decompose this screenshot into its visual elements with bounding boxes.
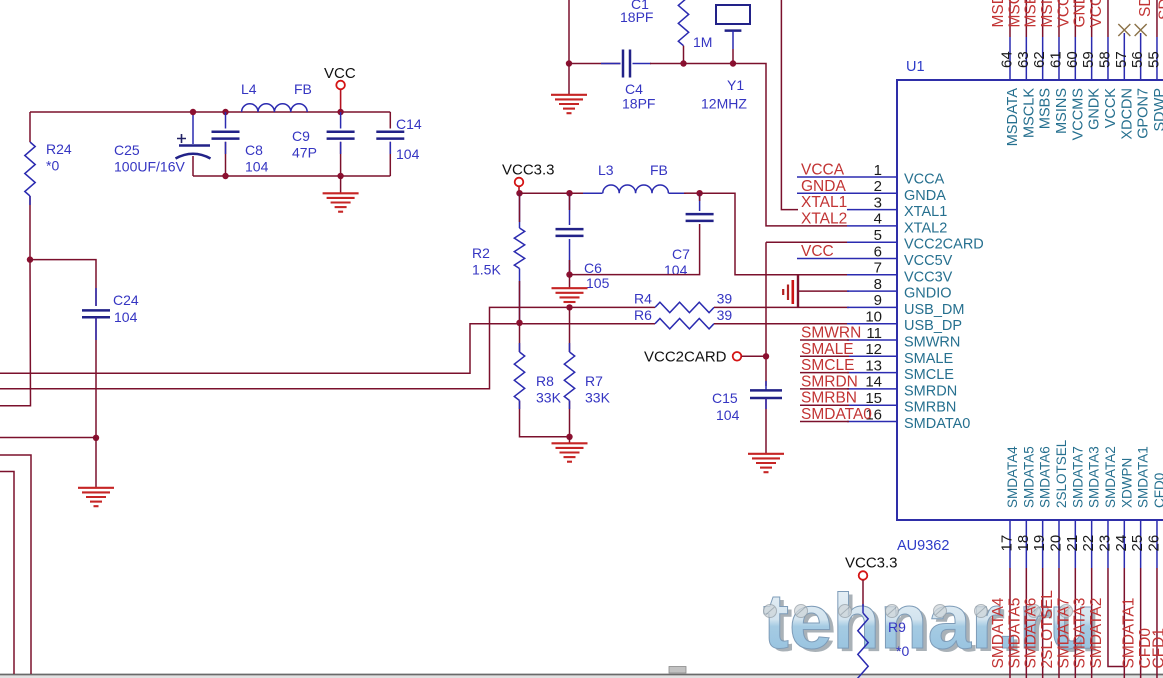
- ground under C15: [748, 453, 784, 455]
- wire VCC5V rail top-left: [30, 111, 390, 113]
- wire gnd stem filter: [340, 176, 342, 193]
- svg-text:U1: U1: [906, 59, 925, 75]
- svg-text:C15: C15: [712, 390, 738, 406]
- node 1M bottom: [680, 60, 686, 66]
- svg-text:104: 104: [664, 262, 688, 278]
- svg-text:22: 22: [1080, 535, 1097, 552]
- bottom pin numbers 17-26: [999, 535, 1163, 552]
- capacitor C4: [622, 50, 625, 78]
- node R24/C24 junction: [27, 256, 33, 262]
- svg-text:SMRDN: SMRDN: [904, 383, 957, 399]
- resistor R8 top wire: [519, 323, 521, 352]
- svg-text:2: 2: [874, 178, 882, 195]
- node VCC3.3 junction: [516, 190, 522, 196]
- svg-text:R6: R6: [634, 307, 652, 323]
- svg-text:MSDATA: MSDATA: [1005, 88, 1021, 147]
- svg-text:64: 64: [999, 51, 1016, 68]
- wire C4 gnd stem: [568, 64, 570, 95]
- resistor R9 stub: [862, 604, 864, 613]
- svg-text:20: 20: [1047, 535, 1064, 552]
- svg-text:1.5K: 1.5K: [472, 262, 501, 278]
- svg-text:SMALE: SMALE: [904, 351, 953, 367]
- svg-text:SMRDN: SMRDN: [801, 373, 858, 390]
- svg-text:C7: C7: [672, 246, 690, 262]
- resistor R7: [564, 352, 574, 401]
- node C9 bottom: [337, 173, 343, 179]
- svg-text:R2: R2: [472, 245, 490, 261]
- svg-text:*0: *0: [46, 158, 59, 174]
- capacitor C25 plus sign: [177, 134, 186, 143]
- node C6 top: [566, 190, 572, 196]
- svg-text:SMDATA0: SMDATA0: [904, 416, 970, 432]
- node R7/R8 gnd junction: [566, 434, 572, 440]
- svg-text:56: 56: [1129, 51, 1146, 68]
- top pin names: [1005, 88, 1163, 147]
- wire gnd rail bottom of filter: [193, 175, 390, 177]
- svg-text:SMDATA6: SMDATA6: [1038, 446, 1053, 508]
- capacitor C25: [179, 144, 210, 147]
- svg-text:R24: R24: [46, 141, 72, 157]
- svg-text:63: 63: [1015, 51, 1032, 68]
- svg-text:MSINS: MSINS: [1054, 88, 1070, 134]
- svg-text:GNDK: GNDK: [1072, 0, 1089, 28]
- pin numbers 1-16: [865, 162, 882, 424]
- svg-text:12MHZ: 12MHZ: [701, 96, 747, 112]
- wire 1M to crystal: [684, 63, 734, 65]
- wire mid gnd stem: [569, 275, 571, 288]
- svg-text:60: 60: [1064, 51, 1081, 68]
- svg-text:SMDATA5: SMDATA5: [1021, 446, 1036, 508]
- svg-text:5: 5: [874, 227, 882, 244]
- svg-text:VCC3.3: VCC3.3: [845, 555, 898, 572]
- svg-text:VCCMS: VCCMS: [1070, 88, 1086, 140]
- ground GNDIO signal symbol: [783, 275, 798, 308]
- svg-text:GNDA: GNDA: [801, 178, 846, 195]
- svg-text:FB: FB: [650, 162, 668, 178]
- svg-text:SMDATA2: SMDATA2: [1088, 598, 1105, 669]
- node C8 top: [222, 109, 228, 115]
- resistor R4: [655, 302, 714, 312]
- wire 1M bottom: [683, 46, 685, 64]
- svg-text:CFD0: CFD0: [1152, 473, 1163, 508]
- bottom red net labels: [990, 590, 1163, 669]
- svg-text:SMDATA3: SMDATA3: [1087, 446, 1102, 508]
- svg-text:SMDATA2: SMDATA2: [1103, 446, 1118, 508]
- wire bottom-left lower: [0, 472, 14, 675]
- node C4 left junction: [566, 60, 572, 66]
- svg-text:MSINS: MSINS: [1039, 0, 1056, 28]
- svg-text:15: 15: [865, 390, 882, 407]
- svg-text:AU9362: AU9362: [897, 538, 949, 554]
- node crystal bottom: [730, 60, 736, 66]
- wire C7 top: [699, 193, 701, 211]
- wire R2 bottom: [519, 269, 521, 323]
- inductor L4: [242, 104, 308, 112]
- wire C1 vertical: [568, 0, 570, 64]
- wire C8 top stub: [225, 112, 227, 129]
- svg-text:7: 7: [874, 260, 882, 277]
- wire C4 left: [569, 63, 621, 65]
- resistor R8: [514, 352, 524, 401]
- resistor R7 top wire: [569, 307, 571, 352]
- wire C9 bottom stub: [340, 142, 342, 176]
- top pin numbers 64-55: [999, 51, 1163, 68]
- svg-text:23: 23: [1096, 535, 1113, 552]
- node C8 bottom: [222, 173, 228, 179]
- svg-text:4: 4: [874, 211, 882, 228]
- svg-text:VCCK: VCCK: [1103, 88, 1119, 129]
- bottom pin wires: [1010, 521, 1157, 678]
- svg-text:1M: 1M: [693, 34, 712, 50]
- svg-text:SMDATA6: SMDATA6: [1023, 598, 1040, 669]
- svg-text:104: 104: [114, 309, 138, 325]
- wire R24 bottom: [29, 196, 31, 260]
- svg-text:SMCLE: SMCLE: [904, 367, 954, 383]
- sheet border tick: [669, 667, 686, 674]
- node R7 top: [566, 304, 572, 310]
- wire C6 vertical top: [569, 193, 571, 225]
- svg-text:MSBS: MSBS: [1038, 88, 1054, 129]
- svg-text:SMDATA7: SMDATA7: [1070, 446, 1085, 508]
- wire C14 branch: [389, 112, 391, 129]
- wire L3 row right: [669, 192, 687, 194]
- svg-text:100UF/16V: 100UF/16V: [114, 159, 185, 175]
- svg-text:25: 25: [1129, 535, 1146, 552]
- svg-text:11: 11: [866, 325, 882, 342]
- node C25 top: [190, 109, 196, 115]
- svg-text:2SLOTSEL: 2SLOTSEL: [1039, 590, 1056, 669]
- svg-text:CFD1: CFD1: [1151, 628, 1163, 668]
- wire C7 bottom: [570, 224, 700, 275]
- svg-text:33K: 33K: [585, 390, 611, 406]
- svg-text:XTAL2: XTAL2: [904, 220, 947, 236]
- svg-text:17: 17: [999, 535, 1016, 552]
- svg-text:SMRBN: SMRBN: [904, 400, 956, 416]
- svg-text:9: 9: [874, 292, 882, 309]
- svg-text:SMDATA1: SMDATA1: [1136, 446, 1151, 508]
- capacitor C6: [556, 228, 584, 231]
- svg-text:VCC2CARD: VCC2CARD: [644, 349, 727, 366]
- wire C24 ground stem: [95, 438, 97, 488]
- wire C14 bottom: [389, 142, 391, 176]
- svg-text:C24: C24: [113, 292, 139, 308]
- svg-text:SDWP: SDWP: [1152, 88, 1163, 132]
- ground under C9: [323, 192, 359, 194]
- svg-text:3: 3: [874, 194, 882, 211]
- svg-text:*0: *0: [896, 643, 909, 659]
- svg-text:MSCLK: MSCLK: [1006, 0, 1023, 28]
- svg-text:18PF: 18PF: [620, 9, 653, 25]
- svg-text:XTAL1: XTAL1: [801, 194, 847, 211]
- svg-text:13: 13: [865, 357, 882, 374]
- svg-text:GNDIO: GNDIO: [904, 286, 952, 302]
- svg-text:SMDATA3: SMDATA3: [1072, 598, 1089, 669]
- svg-text:GNDK: GNDK: [1087, 88, 1103, 130]
- svg-text:47P: 47P: [292, 145, 317, 161]
- watermark tehnar.ru: [763, 577, 1101, 668]
- svg-text:C8: C8: [245, 142, 263, 158]
- svg-text:VCC: VCC: [801, 243, 834, 260]
- capacitor C25 top wire: [192, 112, 194, 144]
- wire GNDIO to pin8: [798, 290, 849, 292]
- node VCC2CARD junction: [763, 353, 769, 359]
- resistor R9: [858, 613, 868, 678]
- resistor R2 top wire: [519, 193, 521, 228]
- svg-text:SMDATA5: SMDATA5: [1006, 598, 1023, 669]
- wire XTAL1 net: [781, 0, 798, 210]
- svg-text:VCCK: VCCK: [1088, 0, 1105, 28]
- svg-text:VCCA: VCCA: [904, 172, 945, 188]
- capacitor C24: [82, 309, 110, 312]
- top pin wires: [1010, 0, 1157, 79]
- svg-text:18: 18: [1015, 535, 1032, 552]
- svg-text:VCC3.3: VCC3.3: [502, 162, 555, 179]
- crystal Y1: [716, 5, 750, 24]
- top red net labels: [990, 0, 1163, 28]
- svg-text:VCC5V: VCC5V: [904, 253, 953, 269]
- svg-text:104: 104: [245, 159, 269, 175]
- no-connect X pin56: [1135, 24, 1147, 36]
- resistor R1M: [678, 0, 688, 46]
- svg-text:VCC: VCC: [324, 65, 356, 82]
- svg-text:SMWRN: SMWRN: [904, 335, 960, 351]
- no-connect X pin57: [1118, 24, 1130, 36]
- wire pin5 row: [766, 241, 847, 243]
- svg-text:39: 39: [717, 291, 733, 307]
- op-amp U1 chip outline: [897, 80, 1163, 520]
- svg-text:21: 21: [1064, 535, 1081, 552]
- pin names 1-16: [904, 172, 984, 433]
- svg-text:R8: R8: [536, 373, 554, 389]
- svg-text:XDWPN: XDWPN: [1119, 458, 1134, 508]
- svg-text:SMCLE: SMCLE: [801, 357, 854, 374]
- svg-text:SMWRN: SMWRN: [801, 325, 861, 342]
- svg-text:SMRBN: SMRBN: [801, 390, 857, 407]
- wire C15 bottom: [765, 398, 767, 453]
- svg-text:L3: L3: [598, 162, 614, 178]
- node C24 bottom junction: [93, 435, 99, 441]
- svg-text:19: 19: [1031, 535, 1048, 552]
- wire C6 bottom: [569, 239, 571, 275]
- resistor R24: [25, 142, 35, 196]
- node VCC junction: [337, 109, 343, 115]
- svg-text:SDDAT: SDDAT: [1157, 0, 1163, 20]
- svg-text:12: 12: [865, 341, 882, 358]
- node C6/C7 gnd junction: [566, 271, 572, 277]
- svg-text:L4: L4: [241, 81, 257, 97]
- svg-text:24: 24: [1113, 535, 1130, 552]
- wire R4 to chip: [714, 306, 849, 308]
- node R2/R8 junction: [516, 320, 522, 326]
- resistor R6: [655, 319, 714, 329]
- svg-text:14: 14: [865, 374, 882, 391]
- svg-text:39: 39: [717, 307, 733, 323]
- svg-text:C14: C14: [396, 116, 422, 132]
- wire R7 bottom: [569, 401, 571, 437]
- svg-text:SMALE: SMALE: [801, 341, 854, 358]
- svg-text:Y1: Y1: [727, 77, 744, 93]
- svg-text:SDWP: SDWP: [1137, 0, 1154, 17]
- wire C4 right: [633, 63, 652, 65]
- wire to C24: [30, 260, 96, 306]
- svg-text:SMDATA1: SMDATA1: [1121, 598, 1138, 669]
- power VCC2CARD circle: [733, 352, 742, 361]
- wire crystal bottom: [732, 49, 734, 64]
- wire VCC3V to pin7: [700, 193, 847, 275]
- svg-text:MSCLK: MSCLK: [1021, 88, 1037, 138]
- wire gnd stem R7R8: [569, 437, 571, 443]
- svg-text:SMDATA4: SMDATA4: [1005, 446, 1020, 508]
- svg-text:104: 104: [396, 146, 420, 162]
- wire R8 bottom: [520, 401, 570, 437]
- ground middle: [552, 287, 588, 289]
- svg-text:VCCA: VCCA: [801, 162, 845, 179]
- capacitor C8: [212, 131, 240, 134]
- svg-text:C9: C9: [292, 128, 310, 144]
- svg-text:105: 105: [586, 275, 610, 291]
- wire VCC2CARD vertical: [765, 242, 767, 386]
- svg-text:FB: FB: [294, 81, 312, 97]
- svg-text:VCC3V: VCC3V: [904, 269, 953, 285]
- svg-text:1: 1: [874, 162, 882, 179]
- svg-text:SMDATA4: SMDATA4: [990, 597, 1007, 668]
- svg-text:26: 26: [1145, 535, 1162, 552]
- svg-text:GNDA: GNDA: [904, 188, 946, 204]
- ground under C4 node: [551, 94, 587, 96]
- svg-text:SMDATA0: SMDATA0: [801, 406, 872, 423]
- svg-text:XTAL1: XTAL1: [904, 204, 947, 220]
- wire bottom-left upper: [0, 455, 31, 674]
- wire XTAL2 net: [733, 64, 847, 226]
- svg-text:VCCMS: VCCMS: [1055, 0, 1072, 28]
- wire R6 row from left: [0, 324, 655, 374]
- wire C25 bottom: [192, 156, 194, 176]
- pins 1-16 stubs: [797, 177, 897, 422]
- wire left vertical from R24 node: [0, 260, 31, 406]
- capacitor C7: [686, 213, 714, 216]
- svg-text:62: 62: [1031, 51, 1048, 68]
- svg-text:58: 58: [1096, 51, 1113, 68]
- svg-text:C6: C6: [584, 260, 602, 276]
- svg-text:55: 55: [1145, 51, 1162, 68]
- wire left stub to C24 node: [0, 437, 96, 439]
- svg-text:XTAL2: XTAL2: [801, 210, 847, 227]
- svg-text:57: 57: [1113, 51, 1130, 68]
- wire L3 row left: [520, 192, 587, 194]
- svg-text:61: 61: [1047, 51, 1064, 68]
- svg-text:6: 6: [874, 243, 882, 260]
- svg-text:C25: C25: [114, 142, 140, 158]
- inductor L3: [603, 185, 669, 193]
- capacitor C9: [327, 131, 355, 134]
- svg-text:10: 10: [865, 309, 882, 326]
- svg-text:104: 104: [716, 407, 740, 423]
- ground under C24: [78, 487, 114, 489]
- svg-text:8: 8: [874, 276, 882, 293]
- svg-text:59: 59: [1080, 51, 1097, 68]
- capacitor C15: [750, 389, 782, 392]
- svg-text:33K: 33K: [536, 390, 562, 406]
- svg-text:USB_DM: USB_DM: [904, 302, 964, 318]
- resistor R2: [514, 228, 524, 269]
- svg-text:XDCDN: XDCDN: [1119, 88, 1135, 140]
- svg-text:R9: R9: [888, 619, 906, 635]
- red net labels pins: [801, 162, 872, 424]
- node L3 out: [696, 190, 702, 196]
- svg-text:R4: R4: [634, 291, 652, 307]
- svg-text:SMDATA7: SMDATA7: [1055, 598, 1072, 669]
- ground under R7R8: [552, 442, 588, 444]
- bottom pin names: [1005, 439, 1163, 508]
- wire R24 top stub: [29, 112, 31, 142]
- svg-text:MSDATA: MSDATA: [990, 0, 1007, 28]
- svg-text:GPON7: GPON7: [1136, 88, 1152, 139]
- svg-text:USB_DP: USB_DP: [904, 318, 962, 334]
- wires pins 11-16: [800, 340, 849, 422]
- svg-text:18PF: 18PF: [622, 96, 655, 112]
- svg-text:VCC2CARD: VCC2CARD: [904, 237, 984, 253]
- wire C24 bottom: [95, 317, 97, 438]
- wire C8 bottom stub: [225, 142, 227, 176]
- capacitor C14: [376, 131, 404, 134]
- wire R4 row from left: [0, 307, 655, 388]
- wire C9 top stub: [340, 112, 342, 129]
- svg-text:MSBS: MSBS: [1023, 0, 1040, 28]
- svg-text:2SLOTSEL: 2SLOTSEL: [1054, 439, 1069, 508]
- sheet border bottom: [0, 675, 1163, 678]
- svg-text:R7: R7: [585, 373, 603, 389]
- wire R6 to chip: [714, 323, 849, 325]
